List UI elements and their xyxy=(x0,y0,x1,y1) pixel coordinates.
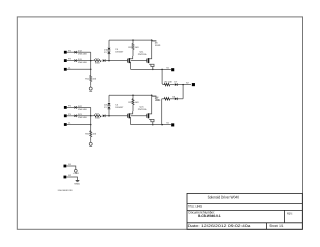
wire row B xyxy=(162,98,165,100)
power flag +36V xyxy=(152,95,157,97)
ground symbol xyxy=(90,141,92,143)
wire output A down to snubber row A xyxy=(162,69,163,84)
diode D23 1N4148 xyxy=(103,115,105,118)
svg-text:Sheet: 1/1: Sheet: 1/1 xyxy=(269,224,283,228)
wire X4-2 to ground xyxy=(66,177,77,180)
svg-text:1N4148: 1N4148 xyxy=(78,108,87,111)
wire D12 to node A1 xyxy=(77,51,91,53)
wire D22 to node A2 xyxy=(77,106,91,108)
svg-text:SV40: SV40 xyxy=(155,44,161,47)
junction zener bottom xyxy=(108,60,110,62)
wire X2-1 to D22 xyxy=(67,106,74,108)
svg-text:SOLENOID DRV: SOLENOID DRV xyxy=(58,189,74,192)
wire D11 to node A1 xyxy=(77,60,94,62)
junction node A2 xyxy=(90,115,92,117)
connector pad X4-1 +36V in xyxy=(64,165,67,168)
zener diode D16 xyxy=(108,52,111,54)
svg-text:1N4148: 1N4148 xyxy=(78,116,87,119)
transistor Q21 2N7016 xyxy=(127,114,129,118)
REV column separator xyxy=(284,210,286,222)
wire R13 to Q11 drain xyxy=(132,49,134,56)
wire zener to gate net xyxy=(108,54,110,61)
junction rail/VCC flag xyxy=(151,95,153,97)
svg-text:+36V: +36V xyxy=(73,172,80,175)
wire output net xyxy=(131,68,171,70)
junction common node xyxy=(182,84,184,86)
wire X2-3 to node B2 xyxy=(67,124,91,126)
junction output/snubber xyxy=(161,124,163,126)
power flag +36V xyxy=(152,40,157,42)
junction source/output xyxy=(152,69,154,71)
wire gate net xyxy=(105,60,127,62)
transistor Q11 2N7016 xyxy=(127,59,129,63)
resistor R21 10k xyxy=(90,131,92,137)
svg-text:GND: GND xyxy=(74,182,80,185)
diode D8 row B xyxy=(175,98,177,101)
drawing border frame xyxy=(17,17,302,229)
wire node A1 vertical xyxy=(90,52,92,60)
wire R23 to Q21 drain xyxy=(132,105,134,112)
wire VCC rail xyxy=(109,39,152,41)
svg-text:B-CB-W040-0-1: B-CB-W040-0-1 xyxy=(198,214,221,218)
wire D21 to node A2 xyxy=(77,115,94,117)
ground symbol xyxy=(90,85,92,87)
wire X4-1 to +36V flag xyxy=(66,166,76,169)
title block frame xyxy=(187,193,302,229)
wire R21 to ground xyxy=(90,137,92,141)
junction node B1 xyxy=(90,69,92,71)
connector pad X2-1 xyxy=(64,106,67,109)
svg-text:R7 100: R7 100 xyxy=(165,80,173,83)
resistor R7 100 row A xyxy=(164,83,170,86)
wire row B down to output B xyxy=(161,99,163,125)
svg-text:56k0: 56k0 xyxy=(95,117,101,120)
wire X2-2 to D21 xyxy=(67,115,74,117)
connector pad X2-3 xyxy=(64,123,67,126)
resistor R8 100 row B xyxy=(164,98,170,101)
sheet column separator xyxy=(266,223,268,230)
svg-text:TITLE:: TITLE: xyxy=(188,204,195,208)
wire output net xyxy=(131,124,171,126)
wire Q21 to Q22 gate xyxy=(131,115,147,117)
svg-text:56k0: 56k0 xyxy=(95,61,101,64)
wire node A2 down to R21 xyxy=(90,116,92,131)
junction node B2 xyxy=(90,124,92,126)
junction rail/R13 xyxy=(132,39,134,41)
wire VCC rail to zener D25 xyxy=(108,95,110,102)
svg-text:Date: 12/26/2012 09:02:40a: Date: 12/26/2012 09:02:40a xyxy=(188,224,251,228)
diode D12 1N4148 xyxy=(74,51,76,54)
zener diode D25 xyxy=(108,103,111,105)
wire VCC rail to zener D15 xyxy=(108,40,110,47)
junction rail/VCC flag xyxy=(151,39,153,41)
wire X1-1 to D12 xyxy=(67,51,74,53)
ground symbol xyxy=(76,180,80,182)
wire R11 to ground xyxy=(90,81,92,85)
connector pad X1-2 xyxy=(64,59,67,62)
wire node A1 down to R11 xyxy=(90,61,92,76)
diode D22 1N4148 xyxy=(74,106,76,109)
junction rail/R23 xyxy=(132,95,134,97)
zener diode D15 xyxy=(108,48,111,50)
junction source/output xyxy=(152,124,154,126)
svg-text:LB405: LB405 xyxy=(196,204,203,208)
wire row A to common node xyxy=(177,84,191,86)
wire gate net xyxy=(105,115,127,117)
wire common node down to row B xyxy=(182,85,184,99)
power flag +36V xyxy=(74,169,77,172)
resistor R13 1k xyxy=(132,40,134,44)
svg-text:Solenoid Driver W040: Solenoid Driver W040 xyxy=(208,195,240,200)
svg-text:2N7016: 2N7016 xyxy=(138,108,147,111)
resistor R22 56k xyxy=(94,115,102,117)
wire X1-2 to D11 xyxy=(67,60,74,62)
diode D11 1N4148 xyxy=(74,59,76,62)
transistor Q22 xyxy=(146,114,148,118)
resistor R23 1k xyxy=(132,95,134,99)
junction node A1 xyxy=(90,60,92,62)
diode D7 row A xyxy=(175,83,177,86)
wire node A2 vertical xyxy=(90,107,92,115)
svg-text:1N4447: 1N4447 xyxy=(115,51,124,54)
junction zener bottom xyxy=(108,115,110,117)
wire Q12 source hook xyxy=(149,64,154,66)
connector pad X2-2 xyxy=(64,114,67,117)
connector pad X1-1 xyxy=(64,51,67,54)
connector pad X1-3 xyxy=(64,68,67,71)
diode D13 1N4148 xyxy=(103,59,105,62)
wire zener to gate net xyxy=(108,109,110,116)
wire Q22 source hook xyxy=(149,119,154,121)
transistor Q12 xyxy=(146,59,148,63)
resistor R11 10k xyxy=(90,76,92,82)
svg-text:1N4148: 1N4148 xyxy=(78,61,87,64)
wire X1-3 to node B1 xyxy=(67,68,91,70)
connector pad X4-2 GND in xyxy=(64,176,67,179)
diode D21 1N4148 xyxy=(74,115,76,118)
svg-text:1N4447: 1N4447 xyxy=(115,106,124,109)
wire Q11 to Q12 gate xyxy=(131,60,147,62)
zener diode D26 xyxy=(108,107,111,109)
wire VCC rail xyxy=(109,94,152,96)
svg-text:2N7016: 2N7016 xyxy=(138,53,147,56)
resistor R12 56k xyxy=(94,60,102,62)
junction output/snubber xyxy=(161,69,163,71)
svg-text:1N4148: 1N4148 xyxy=(78,53,87,56)
svg-text:REV:: REV: xyxy=(287,211,293,215)
